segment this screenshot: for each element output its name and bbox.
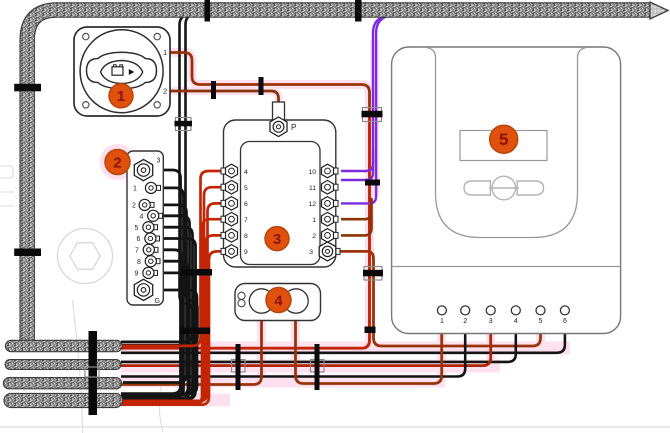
controller button right — [517, 181, 543, 195]
svg-text:5: 5 — [539, 318, 543, 325]
battery switch knob — [87, 52, 157, 89]
badge 2 — [105, 150, 130, 175]
svg-text:11: 11 — [309, 185, 316, 192]
cable tie top loom left — [205, 0, 211, 22]
svg-text:1: 1 — [312, 217, 316, 224]
wire inline fuse left to loom3 — [121, 321, 262, 385]
wire controller T5 to fuse terminal 3 — [340, 251, 541, 346]
battery switch screw holes — [83, 33, 89, 39]
fuse block left terminal 6 — [221, 197, 248, 211]
svg-text:1: 1 — [440, 318, 444, 325]
fuse block right terminal 12 — [308, 197, 338, 211]
controller faceplate — [427, 48, 586, 238]
wire fuse left 8 to loom4 — [121, 235, 228, 401]
loom4 — [11, 393, 116, 408]
wire fuse right terminal 2 stub — [341, 214, 372, 235]
svg-text:5: 5 — [499, 130, 508, 149]
arrow icon — [129, 69, 135, 75]
wire bus bar terminal 7 to loom4 — [121, 250, 182, 398]
inline fuse body — [235, 284, 321, 321]
wire controller T4 to loom2 — [121, 333, 516, 362]
loom2 — [10, 359, 116, 370]
bus bar terminal 3 — [134, 160, 152, 181]
svg-text:7: 7 — [135, 248, 139, 255]
cable tie bottom bundle right with bracket — [311, 360, 325, 373]
fuse block right terminal 2 — [312, 229, 338, 243]
wire fuse left 6 to loom4 — [121, 203, 228, 401]
svg-text:7: 7 — [244, 217, 248, 224]
cable tie black pair with bracket — [176, 118, 192, 131]
svg-text:6: 6 — [244, 201, 248, 208]
bus bar terminal 7 — [135, 244, 158, 255]
controller terminal 1 — [437, 306, 446, 315]
loom arrow head — [650, 2, 668, 19]
fuse block left terminal 8 — [221, 229, 248, 243]
svg-text:P: P — [291, 123, 296, 132]
controller terminal 6 — [560, 306, 569, 315]
wire bus bar terminal 2 to loom3 — [123, 205, 187, 383]
fuse block right terminal 1 — [312, 212, 338, 226]
wire controller T6 to loom1 — [121, 333, 565, 353]
fuse block left terminal 9 — [221, 245, 248, 259]
svg-text:1: 1 — [163, 48, 167, 57]
loom border (left + top with arrow) — [27, 10, 649, 341]
svg-text:8: 8 — [244, 233, 248, 240]
wire switch terminal 2 to fuse P — [168, 91, 279, 104]
wire switch terminal 1 to loom1 (battery positive) — [168, 53, 370, 114]
wire bus bar terminal 8 to loom4 — [121, 261, 188, 395]
battery switch plate — [74, 27, 170, 116]
battery switch knob lens — [101, 61, 143, 84]
wire fuse left 7 to loom4 — [121, 219, 228, 404]
battery icon — [112, 67, 123, 75]
svg-text:4: 4 — [274, 292, 283, 309]
cable tie bottom bundle left with bracket — [232, 360, 246, 373]
svg-text:1: 1 — [133, 186, 137, 193]
battery switch body circle — [80, 30, 163, 113]
cable tie left loom lower — [14, 249, 41, 257]
svg-text:4: 4 — [244, 169, 248, 176]
cable tie bracket loom2 — [85, 367, 99, 377]
wire bus bar terminal 5 to loom4 — [121, 227, 193, 394]
cable tie switch wire 1 — [211, 81, 216, 99]
svg-text:2: 2 — [113, 154, 121, 171]
fuse block right terminal 3 — [309, 242, 340, 261]
controller terminal 3 — [486, 306, 495, 315]
wire controller T1 to inline fuse right — [296, 321, 442, 384]
background hex bolt decoration — [58, 229, 113, 284]
controller outer — [392, 47, 621, 334]
wire fuse left 4 to loom4 — [121, 171, 228, 346]
wire purple to fuse 12 — [341, 16, 388, 203]
wire bus bar terminal G to loom4 — [121, 290, 197, 394]
svg-text:10: 10 — [308, 169, 316, 176]
wire controller T2 to loom3 — [121, 333, 465, 377]
svg-text:3: 3 — [489, 318, 493, 325]
controller terminal 4 — [511, 306, 520, 315]
cable tie strip bundle low — [180, 328, 210, 335]
badge 3 — [265, 227, 289, 251]
cable tie vertical bundle lower with bracket — [364, 267, 382, 281]
cable tie vertical bundle mid — [365, 180, 380, 186]
bus bar terminal 1 — [133, 182, 161, 193]
controller display — [460, 131, 547, 161]
bus bar plate — [127, 151, 163, 305]
svg-text:2: 2 — [463, 318, 467, 325]
svg-text:2: 2 — [163, 87, 167, 96]
wire controller T3 to loom2 — [121, 333, 491, 366]
svg-text:5: 5 — [135, 225, 139, 232]
fuse block P nut — [270, 117, 287, 137]
bus bar terminal 5 — [135, 222, 158, 233]
badge 5 — [490, 125, 518, 153]
loom1 — [11, 340, 117, 352]
fuse block right terminal 11 — [309, 180, 338, 194]
wire bus bar terminal 6 to loom4 — [121, 239, 196, 399]
background faint marks left — [0, 166, 164, 433]
svg-text:3: 3 — [273, 231, 281, 248]
badge 1 — [109, 84, 133, 108]
fuse block left terminal 5 — [221, 180, 248, 194]
svg-text:5: 5 — [244, 185, 248, 192]
svg-text:9: 9 — [135, 271, 139, 278]
controller dial — [492, 176, 516, 200]
cable tie red vertical low — [365, 327, 376, 334]
wire fuse left 5 to loom4 — [121, 187, 228, 403]
cable tie left loom upper — [14, 84, 41, 92]
cable tie vertical bundle upper with bracket — [363, 108, 382, 122]
svg-text:4: 4 — [140, 214, 144, 221]
wire bus bar terminal 4 to loom4 — [121, 216, 190, 398]
controller terminal 5 — [536, 306, 545, 315]
cable tie switch wire 2 — [259, 77, 264, 95]
bus bar terminal 6 — [137, 233, 160, 244]
inline fuse circle right — [284, 289, 308, 313]
badge 4 — [266, 288, 291, 313]
wire bus bar terminal 1 to loom4 — [121, 188, 184, 397]
svg-text:2: 2 — [312, 233, 316, 240]
wire bus bar terminal 9 to loom4 — [121, 273, 194, 399]
inline fuse circle left — [249, 289, 273, 313]
loom3 — [9, 377, 116, 389]
bus bar terminal 4 — [140, 210, 163, 221]
svg-text:6: 6 — [137, 236, 141, 243]
svg-text:2: 2 — [132, 203, 136, 210]
page separator line — [0, 426, 670, 428]
svg-text:1: 1 — [117, 88, 125, 105]
fuse block left terminal 4 — [221, 164, 248, 178]
wire fuse left 9 to loom4 — [121, 251, 228, 404]
cable tie strip bundle mid — [181, 269, 212, 276]
svg-text:9: 9 — [244, 249, 248, 256]
inline fuse clips — [238, 292, 245, 299]
bus bar terminal 8 — [137, 256, 160, 267]
controller button left — [464, 181, 490, 195]
wire bus bar terminal 3 to loom4 — [121, 170, 181, 394]
controller separator — [392, 266, 621, 268]
fuse block left terminal 7 — [221, 212, 248, 226]
pink glow layer — [100, 40, 571, 400]
svg-text:12: 12 — [308, 201, 316, 208]
wire black pair loom1 to top loom (ground trunk B) — [121, 14, 198, 346]
bus bar terminal 2 — [132, 199, 154, 210]
fuse block outer — [224, 120, 336, 267]
cable tie top loom right — [355, 0, 362, 22]
wire fuse right terminal 1 stub — [341, 198, 372, 219]
svg-text:G: G — [155, 298, 160, 305]
wire black pair loom1 to top loom (ground trunk A) — [121, 14, 193, 342]
bus bar terminal 9 — [135, 267, 158, 278]
fuse block right terminal 10 — [308, 164, 338, 178]
cable tie bottom looms long — [89, 331, 98, 415]
bus bar terminal G — [134, 279, 152, 300]
fuse block P stem — [273, 102, 285, 120]
fuse block inner — [241, 142, 321, 265]
svg-text:8: 8 — [137, 259, 141, 266]
controller terminal 2 — [461, 306, 470, 315]
svg-text:3: 3 — [309, 249, 313, 256]
wire purple pair from top loom down — [341, 17, 384, 181]
svg-text:6: 6 — [563, 318, 567, 325]
svg-text:4: 4 — [514, 318, 518, 325]
svg-text:3: 3 — [157, 158, 161, 165]
